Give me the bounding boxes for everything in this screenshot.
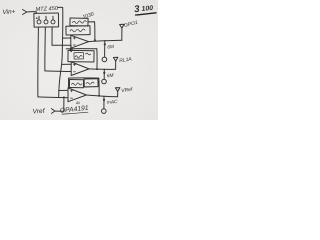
U1 minus mark bbox=[73, 44, 75, 46]
label TP3 bbox=[107, 99, 119, 106]
label 4x near U3 bbox=[75, 100, 81, 106]
connector J1 terminal block bbox=[34, 13, 59, 27]
wire Vref horizontal bbox=[55, 110, 64, 112]
test point TP3 bbox=[102, 109, 107, 114]
junction blob at J1 pin1 bbox=[36, 17, 38, 19]
op-amp U2 bbox=[71, 62, 89, 76]
resistor R1 bbox=[70, 18, 88, 26]
page number 3100 bbox=[134, 4, 154, 16]
R5 value scribble bbox=[72, 83, 82, 85]
svg-text:6M: 6M bbox=[107, 44, 114, 51]
label OPA4191 bbox=[59, 105, 89, 115]
junction U3 feedback bbox=[98, 95, 100, 97]
wire R1 feedback to U1 output bbox=[88, 22, 95, 40]
U2 plus mark bbox=[73, 63, 75, 65]
junction Vref-common bbox=[63, 96, 65, 98]
wire Vref up to common rail bbox=[63, 97, 65, 111]
wire bus to U2 noninverting input bbox=[62, 63, 71, 65]
svg-text:100: 100 bbox=[141, 5, 153, 13]
svg-text:MTZ 450: MTZ 450 bbox=[35, 6, 59, 13]
junction U2 feedback bbox=[96, 68, 98, 70]
op-amp U3 bbox=[68, 88, 86, 102]
svg-text:Vref: Vref bbox=[32, 108, 45, 116]
J1 pin 3 bbox=[51, 20, 55, 24]
R6 value scribble bbox=[86, 82, 94, 84]
wire bus from J1 top right bbox=[58, 6, 63, 8]
page number underline bbox=[136, 13, 157, 15]
node Vref bbox=[32, 108, 45, 116]
label RL1A bbox=[119, 56, 133, 64]
op-amp U1 bbox=[71, 35, 89, 48]
wire U1 output bbox=[89, 40, 122, 41]
wire feedback right to U3 output bbox=[98, 78, 100, 95]
wire bus vertical bbox=[59, 8, 63, 97]
wire U3 output bbox=[86, 95, 117, 97]
wire pin1 down bbox=[37, 30, 40, 97]
net flag RL1A bbox=[113, 57, 118, 61]
test point TP2 bbox=[102, 79, 107, 84]
label TP1 bbox=[107, 44, 114, 51]
wire up to flag VREF bbox=[117, 91, 119, 96]
R1 value scribble bbox=[73, 21, 87, 24]
wire Vref entry arrow bbox=[52, 109, 55, 114]
svg-text:6M: 6M bbox=[107, 73, 114, 80]
node Vin+ bbox=[2, 9, 15, 16]
U3 plus mark bbox=[70, 90, 72, 92]
wire Vin+ to J1 bbox=[27, 12, 36, 14]
test point TP1 bbox=[102, 57, 107, 62]
net flag GPO1 bbox=[120, 24, 125, 28]
resistor R2 bbox=[66, 26, 90, 35]
resistor R5 bbox=[69, 79, 83, 87]
J1 pin 2 bbox=[44, 20, 48, 24]
wire common rail to U3 inverting input bbox=[38, 96, 68, 99]
U1 plus mark bbox=[73, 37, 75, 39]
R3 inner scribble bbox=[75, 53, 91, 58]
wire up to flag RL1A bbox=[115, 61, 117, 69]
svg-text:mAC: mAC bbox=[107, 99, 119, 106]
paper background bbox=[0, 0, 158, 120]
wire R5 left leg bbox=[68, 78, 70, 88]
net flag VREF bbox=[115, 88, 120, 92]
wire bus to U3 noninverting input bbox=[59, 89, 68, 91]
wire Vin+ entry arrow bbox=[23, 10, 27, 15]
R2 value scribble bbox=[70, 29, 85, 32]
junction TP1 bbox=[104, 43, 106, 45]
trimmer arrow into R3 bbox=[70, 45, 72, 51]
junction TP2 bbox=[103, 72, 105, 74]
label TP2 bbox=[107, 73, 114, 80]
junction U1 feedback bbox=[94, 39, 96, 41]
wire pin3 to U1 inverting input bbox=[52, 44, 71, 46]
wire TP1 branch bbox=[104, 41, 106, 57]
wire R3 top feedback bbox=[66, 48, 97, 50]
wire pin3 down bbox=[51, 30, 53, 46]
resistor network R3 bbox=[68, 50, 94, 62]
wire U2 output bbox=[89, 68, 116, 70]
wire up to flag GPO1 bbox=[121, 28, 123, 40]
label GPO1 bbox=[124, 20, 139, 29]
J1 pin 1 bbox=[37, 20, 41, 24]
underline OPA4191 bbox=[62, 112, 88, 114]
R3 inner element bbox=[74, 52, 84, 59]
svg-text:Vin+: Vin+ bbox=[2, 9, 15, 16]
U3 minus mark bbox=[70, 97, 72, 99]
wire feedback right to U2 output bbox=[96, 49, 98, 69]
wire TP2 branch bbox=[103, 69, 105, 79]
label R1 value bbox=[82, 11, 95, 20]
wire TP3 branch bbox=[103, 96, 105, 109]
label VREF bbox=[121, 87, 134, 95]
J1 bottom pin stubs bbox=[37, 27, 39, 30]
junction TP3 bbox=[103, 99, 105, 101]
wire R5 top feedback bbox=[69, 77, 99, 79]
wire bus to U1 noninverting input bbox=[62, 37, 70, 39]
label MTZ450 bbox=[35, 6, 59, 13]
U2 minus mark bbox=[73, 71, 75, 73]
wire pin2 down bbox=[44, 30, 46, 71]
resistor R6 bbox=[84, 79, 98, 87]
wire pin2 to U2 inverting input bbox=[45, 70, 71, 73]
